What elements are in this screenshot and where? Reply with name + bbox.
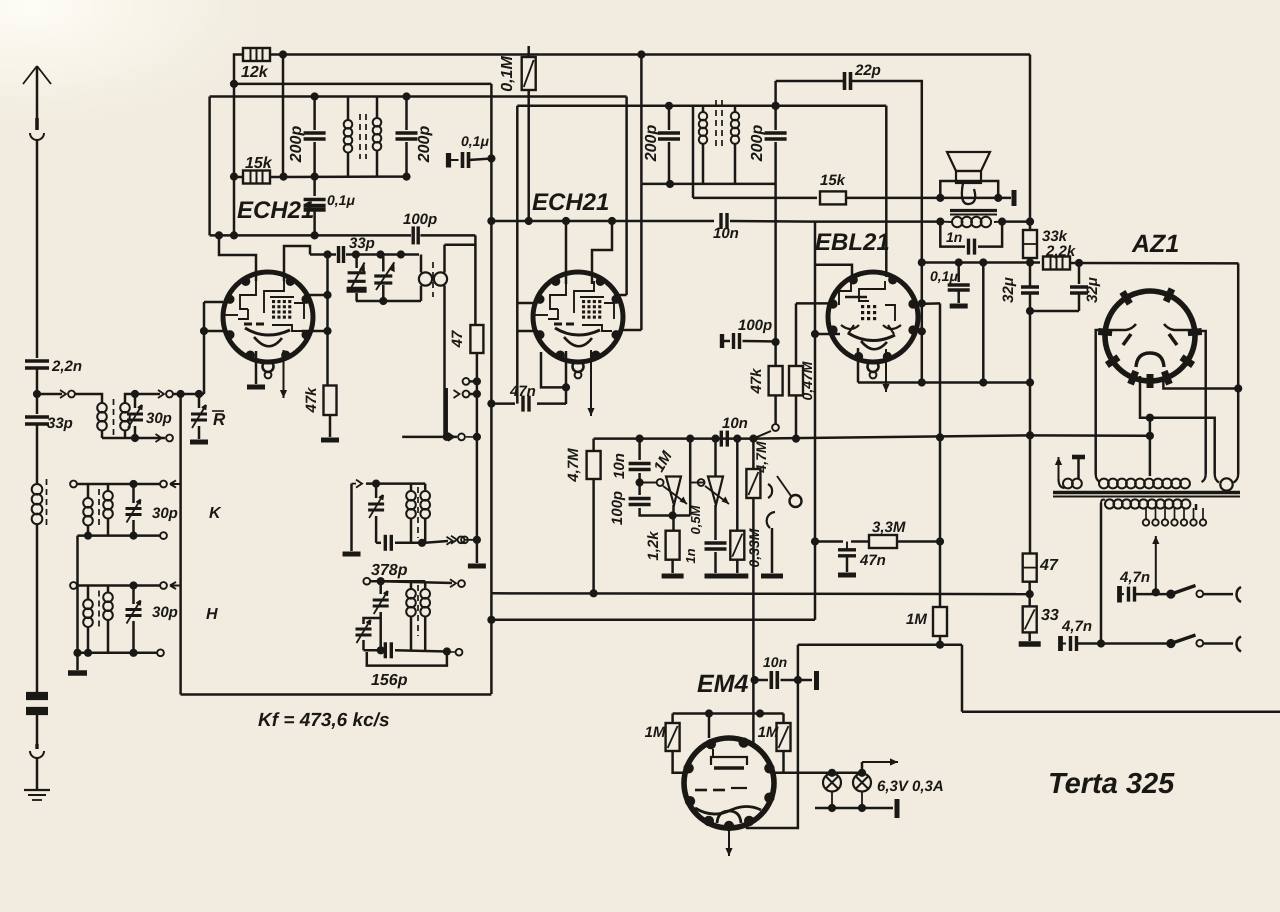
svg-text:47: 47 bbox=[1039, 557, 1059, 574]
svg-text:2,2n: 2,2n bbox=[51, 358, 82, 375]
svg-text:0,1M: 0,1M bbox=[499, 56, 516, 92]
svg-text:ECH21: ECH21 bbox=[237, 197, 314, 224]
svg-text:10n: 10n bbox=[713, 225, 739, 242]
svg-text:1,2k: 1,2k bbox=[645, 531, 662, 561]
svg-text:EM4: EM4 bbox=[697, 670, 749, 698]
svg-text:200p: 200p bbox=[288, 126, 305, 164]
svg-text:33p: 33p bbox=[47, 415, 73, 432]
svg-text:ECH21: ECH21 bbox=[532, 189, 609, 216]
svg-text:3,3M: 3,3M bbox=[872, 519, 906, 536]
svg-text:30p: 30p bbox=[146, 410, 172, 427]
svg-text:33p: 33p bbox=[349, 235, 375, 252]
svg-text:4,7n: 4,7n bbox=[1061, 618, 1092, 635]
svg-text:1M: 1M bbox=[645, 724, 666, 741]
svg-text:6,3V 0,3A: 6,3V 0,3A bbox=[877, 778, 944, 795]
svg-text:0,1μ: 0,1μ bbox=[327, 192, 355, 208]
svg-text:Kf = 473,6 kc/s: Kf = 473,6 kc/s bbox=[258, 710, 390, 731]
svg-text:32μ: 32μ bbox=[1084, 277, 1101, 303]
svg-text:47: 47 bbox=[449, 330, 466, 348]
svg-text:47n: 47n bbox=[509, 383, 536, 400]
svg-text:1n: 1n bbox=[683, 548, 698, 563]
svg-text:10n: 10n bbox=[763, 654, 787, 670]
svg-text:4,7M: 4,7M bbox=[753, 441, 769, 473]
svg-text:Terta 325: Terta 325 bbox=[1048, 768, 1175, 800]
svg-text:4,7n: 4,7n bbox=[1119, 569, 1150, 586]
svg-text:EBL21: EBL21 bbox=[815, 229, 890, 256]
svg-text:100p: 100p bbox=[403, 211, 437, 228]
svg-text:H: H bbox=[206, 606, 218, 623]
svg-text:12k: 12k bbox=[241, 64, 269, 81]
svg-text:156p: 156p bbox=[371, 672, 408, 689]
svg-text:0,47M: 0,47M bbox=[799, 361, 815, 400]
svg-text:1n: 1n bbox=[946, 229, 962, 245]
svg-text:AZ1: AZ1 bbox=[1131, 230, 1179, 258]
svg-text:100p: 100p bbox=[609, 491, 626, 525]
svg-text:47k: 47k bbox=[748, 368, 765, 395]
svg-text:10n: 10n bbox=[611, 453, 628, 479]
svg-text:47n: 47n bbox=[859, 552, 886, 569]
svg-text:2,2k: 2,2k bbox=[1045, 243, 1076, 260]
svg-text:0,1μ: 0,1μ bbox=[461, 133, 489, 149]
svg-text:200p: 200p bbox=[643, 125, 660, 163]
svg-text:R: R bbox=[213, 410, 226, 429]
svg-text:0,5M: 0,5M bbox=[688, 504, 703, 534]
svg-text:378p: 378p bbox=[371, 562, 408, 579]
svg-text:15k: 15k bbox=[820, 172, 846, 189]
svg-text:30p: 30p bbox=[152, 505, 178, 522]
svg-text:33: 33 bbox=[1041, 607, 1059, 624]
svg-text:100p: 100p bbox=[738, 317, 772, 334]
svg-text:30p: 30p bbox=[152, 604, 178, 621]
svg-text:1M: 1M bbox=[758, 724, 779, 741]
svg-text:15k: 15k bbox=[245, 155, 273, 172]
svg-text:32μ: 32μ bbox=[1000, 277, 1017, 303]
svg-text:1M: 1M bbox=[906, 611, 927, 628]
svg-text:200p: 200p bbox=[749, 125, 766, 163]
svg-text:0,1μ: 0,1μ bbox=[930, 268, 958, 284]
svg-text:10n: 10n bbox=[722, 415, 748, 432]
svg-text:22p: 22p bbox=[854, 62, 881, 79]
svg-text:K: K bbox=[209, 505, 222, 522]
svg-text:200p: 200p bbox=[416, 126, 433, 164]
svg-text:4,7M: 4,7M bbox=[565, 448, 582, 483]
svg-text:47k: 47k bbox=[303, 387, 320, 414]
